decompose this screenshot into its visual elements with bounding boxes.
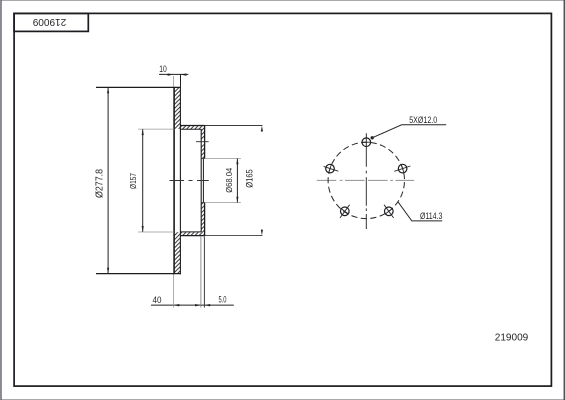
- bolt hole lower-left ticks: [340, 205, 350, 218]
- svg-text:5.0: 5.0: [219, 295, 227, 305]
- bolt hole upper-right: [398, 164, 407, 173]
- bolt circle dashed: [328, 142, 404, 218]
- bolt hole upper-right ticks: [394, 164, 410, 173]
- hatch disc strip lower: [174, 232, 180, 273]
- dim 165 bottom arrow: [261, 230, 263, 236]
- disc outer face (left): [173, 87, 175, 274]
- hub wall left edge: [200, 129, 202, 232]
- dim 10 right arrow: [181, 74, 187, 76]
- dim 157 bottom arrow: [142, 226, 144, 232]
- disc bottom face line: [96, 273, 181, 275]
- dim 10 left arrow: [168, 74, 174, 76]
- svg-text:Ø277.8: Ø277.8: [94, 169, 105, 198]
- bottom dim line: [151, 304, 234, 306]
- hat bottom inner line: [180, 231, 201, 233]
- disc top face line: [96, 86, 181, 88]
- bolt hole lower-left: [341, 207, 350, 216]
- hub face upper segment: [204, 125, 206, 158]
- bolt hole upper-left ticks: [324, 164, 339, 173]
- hat top outer line: [180, 125, 205, 127]
- bore silhouette line: [202, 159, 204, 203]
- hatch hat top wall: [180, 126, 204, 129]
- bolt hole centerline tick in hub: [196, 141, 209, 143]
- dim 68.04 line: [236, 159, 238, 203]
- dim 165 top arrow: [261, 126, 263, 132]
- vertical centerline: [365, 133, 367, 229]
- hatch hat bottom wall: [180, 232, 204, 235]
- bottom ext at disc outer face: [173, 275, 175, 308]
- dim 40 right arrow: [195, 304, 201, 306]
- dim 277.8 line: [107, 87, 109, 273]
- hub face lower segment: [204, 202, 206, 235]
- dim 68.04 bottom extension: [205, 202, 241, 204]
- svg-text:219009: 219009: [495, 332, 529, 344]
- disc inner face (right): [179, 87, 181, 274]
- hatch disc strip upper: [174, 88, 180, 129]
- bolt hole lower-right ticks: [384, 205, 394, 218]
- dim 165 top extension: [205, 125, 263, 127]
- bottom ext at hub wall left: [200, 237, 202, 308]
- outer sheet border left edge: [0, 0, 2, 400]
- dim 277.8 bottom arrow: [107, 268, 109, 274]
- dim 157 bottom extension: [138, 231, 174, 233]
- horizontal centerline: [317, 179, 414, 181]
- section horizontal centerline: [170, 180, 209, 182]
- bolt hole lower-right: [385, 207, 394, 216]
- hatch hub wall upper below bolt hole: [201, 144, 204, 158]
- bolt hole upper-left: [326, 164, 335, 173]
- dim 68.04 top extension: [205, 158, 241, 160]
- svg-text:Ø157: Ø157: [128, 173, 138, 189]
- dim 68.04 top arrow: [236, 159, 238, 165]
- hatch hub wall upper above bolt hole: [201, 129, 204, 139]
- dim 157 top arrow: [142, 129, 144, 135]
- dim 10 left extension: [172, 76, 174, 87]
- dim 10 line: [159, 73, 188, 75]
- leader dot 5x12: [371, 136, 374, 139]
- title box top-left: [14, 13, 88, 31]
- bottom ext at hub face: [203, 237, 205, 308]
- leader line 114.3: [398, 202, 442, 221]
- hat bottom outer line: [180, 235, 205, 237]
- dim 5.0 outside arrow: [204, 304, 210, 306]
- dim 157 line: [142, 129, 144, 232]
- dim 277.8 top arrow: [107, 87, 109, 93]
- dim 40 left arrow: [174, 304, 180, 306]
- svg-text:5XØ12.0: 5XØ12.0: [409, 115, 437, 126]
- dim 165 bottom extension: [205, 235, 263, 237]
- dim 10 right extension: [180, 74, 182, 87]
- svg-text:Ø114.3: Ø114.3: [420, 211, 443, 222]
- hat top inner line: [180, 128, 201, 130]
- svg-text:40: 40: [153, 295, 162, 306]
- bolt hole top horizontal tick: [362, 141, 371, 143]
- outer sheet border right edge: [563, 0, 565, 400]
- svg-text:10: 10: [159, 64, 167, 75]
- leader line 5x12: [372, 125, 446, 138]
- svg-text:Ø165: Ø165: [244, 169, 254, 188]
- bolt hole top: [362, 138, 371, 147]
- svg-text:219009: 219009: [33, 16, 67, 28]
- dim 157 top extension: [138, 128, 174, 130]
- svg-text:Ø68.04: Ø68.04: [224, 168, 234, 193]
- dim 68.04 bottom arrow: [236, 197, 238, 203]
- bore bottom edge: [201, 202, 204, 204]
- bore top edge: [201, 158, 204, 160]
- hatch hub wall lower: [201, 203, 204, 233]
